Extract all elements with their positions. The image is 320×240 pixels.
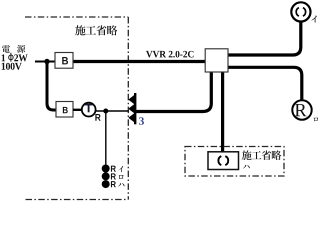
junction box — [205, 49, 228, 72]
label: cable VVR 2.0-2C — [146, 51, 193, 58]
relay triangle 1 — [128, 95, 134, 104]
relay triangle 2 — [128, 104, 134, 113]
breaker B2 box — [56, 102, 73, 118]
ceiling outlet inner right paren — [303, 8, 306, 17]
wire: thin control wire down to lamps — [105, 111, 107, 165]
dash-dot boundary: right edge of upper-left region — [127, 17, 129, 200]
wire: thin control wire T to relay — [96, 110, 129, 112]
remote-control relay assembly: vertical bar — [134, 93, 136, 124]
label: 1phi2W — [2, 54, 5, 61]
label: construction omitted (top region) — [75, 25, 117, 35]
node: junction dot at source — [44, 59, 49, 64]
lamp R-ro filled circle — [102, 172, 110, 180]
breaker B1 box — [55, 53, 73, 69]
ceiling outlet inner left paren — [296, 8, 299, 17]
label: R-i — [111, 166, 116, 172]
wire: junction box to ceiling outlet (upper right branch) — [228, 22, 301, 55]
wire: source lead-in — [35, 61, 55, 63]
lamp R-ha filled circle — [102, 180, 110, 188]
label: T (hand-drawn strokes) — [85, 104, 93, 106]
label: B1 — [62, 57, 68, 64]
transformer T (remote-control) circle — [82, 103, 96, 117]
label: subscript R of transformer — [95, 114, 100, 121]
wire: vertical drop from source junction to lower breaker — [47, 62, 57, 111]
label: katakana ro — [314, 117, 318, 121]
label: 3 (relay count) — [139, 117, 144, 125]
dash-dot boundary: bottom edge of upper-left region — [26, 199, 129, 201]
lamp receptacle R circle — [292, 100, 311, 119]
dash-dot boundary: lower-right construction-omitted region — [185, 147, 284, 177]
label: construction omitted (bottom region) — [242, 150, 282, 160]
node: junction dot on control wire — [103, 109, 108, 114]
square fixture inner left paren — [218, 156, 221, 165]
label: katakana i — [311, 16, 317, 23]
label: R-ro — [111, 173, 116, 179]
lamp R-i filled circle — [102, 165, 110, 173]
label: power source 電源 — [2, 45, 10, 53]
square ceiling fixture rect — [208, 152, 239, 170]
label: R inside receptacle — [295, 104, 307, 116]
wire: junction box to lamp receptacle R (lower right branch) — [228, 67, 302, 100]
label: 100V — [2, 63, 22, 70]
ceiling outlet circle (round) — [291, 2, 310, 21]
square fixture inner right paren — [225, 156, 228, 165]
label: B2 — [63, 107, 68, 113]
relay triangle 3 — [128, 113, 134, 122]
wire: relay to junction box — [136, 71, 212, 112]
wire: junction box down to square ceiling fixture — [221, 71, 224, 152]
wire: B2 to transformer T — [73, 109, 82, 111]
label: R-ha — [111, 181, 116, 187]
label: katakana ha (bottom fixture) — [243, 165, 250, 169]
wire: main run breaker B to junction box — [73, 60, 206, 63]
dash-dot boundary: top edge of upper-left construction-omitted region — [25, 16, 128, 18]
